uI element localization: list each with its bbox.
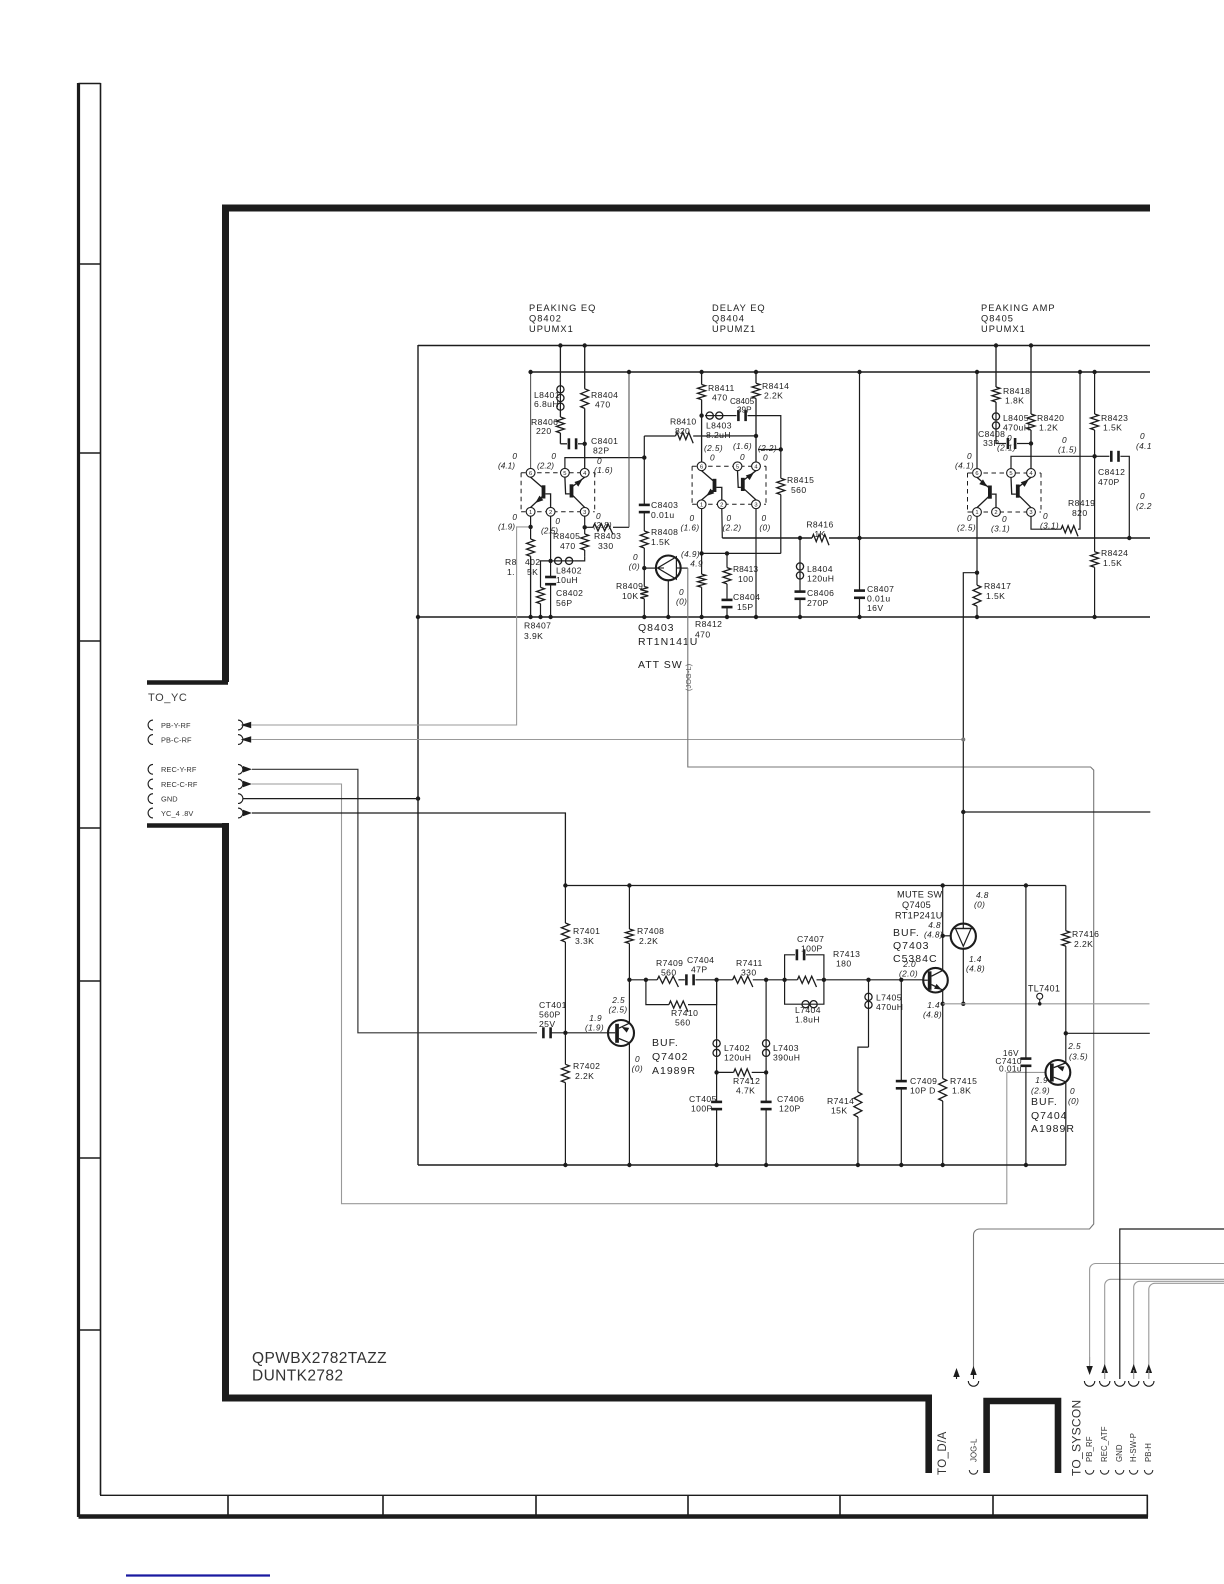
svg-text:820: 820	[1072, 508, 1088, 518]
svg-text:(2.0): (2.0)	[899, 969, 918, 979]
svg-text:(4.8): (4.8)	[924, 929, 943, 939]
svg-text:L8403: L8403	[706, 421, 732, 431]
resistor R7414 15K	[858, 1047, 869, 1092]
resistor R8420 1.2K	[1027, 414, 1035, 430]
svg-text:0.01u: 0.01u	[651, 510, 675, 520]
inductor L8404 120uH column	[798, 536, 802, 540]
wire pin3 node	[584, 516, 586, 527]
svg-text:Q7403: Q7403	[893, 940, 930, 952]
svg-text:0: 0	[1140, 491, 1145, 501]
capacitor C8403 0.01u	[639, 504, 650, 507]
inductor L7403 390uH	[765, 980, 767, 1039]
svg-text:(JOG-L): (JOG-L)	[684, 664, 693, 691]
svg-text:0: 0	[710, 453, 715, 463]
svg-text:(2.1): (2.1)	[997, 443, 1016, 453]
svg-text:R8420: R8420	[1037, 413, 1064, 423]
svg-text:330: 330	[598, 541, 614, 551]
svg-text:560P: 560P	[539, 1010, 561, 1020]
pin 5 (Q8404)	[733, 462, 742, 471]
svg-text:2.2K: 2.2K	[639, 936, 658, 946]
svg-text:100: 100	[738, 574, 754, 584]
resistor R8409 10K	[643, 568, 645, 587]
pin REC_ATF (TO_SYSCON)	[1101, 1364, 1108, 1373]
resistor R8410 820	[644, 435, 675, 437]
wire PB-C-RF net	[251, 739, 963, 741]
pin PB_RF (TO_SYSCON)	[1086, 1366, 1093, 1375]
wire pin1 column down	[530, 516, 532, 539]
inductor L7404 1.8uH (bottom branch)	[785, 980, 802, 1004]
svg-text:R7414: R7414	[827, 1096, 854, 1106]
svg-text:560: 560	[661, 968, 677, 978]
svg-text:A1989R: A1989R	[1031, 1123, 1075, 1135]
svg-text:(3.1): (3.1)	[991, 524, 1010, 534]
svg-text:560: 560	[675, 1018, 691, 1028]
inductor L8401 6.8uH	[559, 385, 561, 411]
svg-text:(0): (0)	[632, 1064, 643, 1074]
svg-text:C8402: C8402	[556, 588, 583, 598]
wire TL7401 net (gray)	[943, 1003, 1150, 1005]
svg-text:R8424: R8424	[1101, 548, 1128, 558]
svg-text:15P: 15P	[737, 602, 754, 612]
svg-text:0: 0	[635, 1054, 640, 1064]
svg-text:0: 0	[967, 451, 972, 461]
svg-text:R7402: R7402	[573, 1061, 600, 1071]
capacitor C8407 0.01u 16V column	[857, 536, 861, 540]
svg-text:(3.5): (3.5)	[1069, 1052, 1088, 1062]
svg-text:(0): (0)	[676, 597, 687, 607]
svg-text:120uH: 120uH	[724, 1053, 751, 1063]
svg-text:QPWBX2782TAZZ: QPWBX2782TAZZ	[252, 1350, 387, 1367]
inductor L8402 10uH	[553, 560, 575, 562]
svg-text:(4.8): (4.8)	[923, 1010, 942, 1020]
resistor R7413 180	[797, 976, 816, 987]
svg-text:6: 6	[975, 471, 978, 477]
resistor R8415 560	[780, 450, 782, 479]
svg-text:ATT SW: ATT SW	[638, 659, 683, 671]
svg-text:(0): (0)	[1068, 1096, 1079, 1106]
svg-text:0: 0	[633, 552, 638, 562]
resistor R8411 470	[698, 385, 706, 400]
capacitor C7409 10P D	[869, 979, 902, 981]
svg-text:820: 820	[675, 426, 690, 436]
svg-text:R8412: R8412	[695, 619, 722, 629]
resistor R8403 330	[585, 526, 593, 528]
svg-text:470: 470	[560, 541, 576, 551]
svg-text:GND: GND	[161, 794, 178, 803]
svg-text:(1.9): (1.9)	[498, 522, 515, 532]
svg-text:R7412: R7412	[733, 1076, 760, 1086]
pin PB-Y-RF (TO_YC)	[148, 720, 153, 730]
pin 6 (Q8402)	[526, 468, 535, 477]
wire R8414 column	[755, 372, 757, 383]
wire C8403 column	[643, 458, 645, 505]
resistor R8408 1.5K	[640, 531, 648, 548]
svg-text:1: 1	[975, 510, 978, 516]
wire R8411 column	[701, 372, 703, 385]
capacitor C7407 100P (top branch)	[785, 955, 795, 980]
svg-text:BUF.: BUF.	[652, 1037, 679, 1049]
svg-text:470uH: 470uH	[876, 1002, 903, 1012]
svg-text:(2.2): (2.2)	[537, 461, 554, 471]
svg-text:A1989R: A1989R	[652, 1065, 696, 1077]
svg-text:0: 0	[679, 587, 684, 597]
resistor R7416 2.2K	[1065, 886, 1067, 931]
svg-text:47P: 47P	[691, 965, 708, 975]
wire Q8403 emitter to ground	[667, 580, 669, 617]
wire pin6 column (supply)	[976, 372, 978, 469]
svg-text:PB_RF: PB_RF	[1085, 1436, 1094, 1462]
svg-text:PB-H: PB-H	[1144, 1443, 1153, 1462]
wire REC-C-RF net	[252, 784, 1046, 1204]
svg-text:R8417: R8417	[984, 581, 1011, 591]
svg-text:JOG-L: JOG-L	[969, 1438, 978, 1462]
svg-text:25V: 25V	[539, 1019, 556, 1029]
svg-text:0: 0	[761, 513, 766, 523]
svg-text:5: 5	[1009, 471, 1012, 477]
svg-text:BUF.: BUF.	[893, 927, 920, 939]
resistor R8405 470	[581, 534, 589, 550]
svg-text:(4.1): (4.1)	[498, 461, 515, 471]
svg-text:10K: 10K	[622, 591, 639, 601]
svg-text:H-SW-P: H-SW-P	[1129, 1433, 1138, 1462]
resistor R7411 330	[733, 976, 753, 987]
svg-text:2.5: 2.5	[1067, 1041, 1081, 1051]
svg-text:6: 6	[700, 464, 703, 470]
pin REC-Y-RF (TO_YC)	[148, 764, 153, 774]
svg-text:(1.6): (1.6)	[594, 465, 613, 475]
svg-text:0: 0	[689, 513, 694, 523]
pin 1 (Q8402)	[526, 507, 535, 516]
resistor R8412 470	[698, 574, 706, 587]
pin PB-C-RF (TO_YC)	[148, 735, 153, 745]
svg-text:470: 470	[712, 393, 728, 403]
svg-text:(4.8): (4.8)	[966, 964, 985, 974]
wire pin3 column to ground	[755, 509, 757, 617]
svg-text:R8405: R8405	[553, 531, 580, 541]
wire R8404 column	[584, 345, 586, 389]
resistor R8419 820	[1031, 516, 1061, 529]
svg-text:(1.6): (1.6)	[680, 523, 699, 533]
svg-text:GND: GND	[1115, 1444, 1124, 1462]
pin 3 (Q8404)	[752, 500, 761, 509]
svg-text:0: 0	[1007, 433, 1012, 443]
capacitor C8404 15P	[722, 599, 733, 602]
wire node y=553 to R8415	[702, 552, 781, 554]
wire 4.8V rail y=885	[565, 885, 1065, 887]
transistor Q7405 RT1P241U (MUTE SW)	[943, 935, 951, 937]
wire R8418/L8405 column	[995, 345, 997, 387]
svg-text:CT405: CT405	[689, 1094, 717, 1104]
svg-text:390uH: 390uH	[773, 1053, 800, 1063]
svg-text:0: 0	[726, 513, 731, 523]
svg-text:(2.2: (2.2	[1136, 501, 1152, 511]
resistor R8424 1.5K	[1094, 456, 1096, 551]
svg-text:0: 0	[967, 513, 972, 523]
svg-text:RT1P241U: RT1P241U	[895, 911, 943, 921]
resistor R8404 470	[581, 389, 589, 409]
pin 3 (Q8402)	[580, 507, 589, 516]
svg-text:REC-Y-RF: REC-Y-RF	[161, 765, 197, 774]
svg-text:(0): (0)	[759, 523, 770, 533]
svg-text:(1.5): (1.5)	[1058, 445, 1077, 455]
svg-text:560: 560	[791, 485, 807, 495]
capacitor C7404 47P	[685, 974, 688, 985]
wire inner box left edge (GND net)	[417, 345, 419, 1165]
wire pin1 column / node 4.9	[701, 509, 703, 574]
transistor Q8403 RT1N141U (ATT SW)	[644, 567, 656, 569]
svg-text:C8403: C8403	[651, 500, 678, 510]
pin 1 (Q8404)	[697, 500, 706, 509]
svg-text:C8401: C8401	[591, 436, 618, 446]
resistor R7409 560	[657, 976, 678, 987]
svg-text:0: 0	[1140, 431, 1145, 441]
svg-text:15K: 15K	[831, 1106, 848, 1116]
wire top rail y=345	[418, 345, 1150, 347]
svg-text:Q7402: Q7402	[652, 1051, 689, 1063]
svg-text:C7406: C7406	[777, 1094, 804, 1104]
svg-text:2.2K: 2.2K	[764, 391, 783, 401]
svg-text:2.2K: 2.2K	[1074, 939, 1093, 949]
svg-text:L7402: L7402	[724, 1043, 750, 1053]
svg-text:100P: 100P	[801, 944, 823, 954]
svg-text:TO_D/A: TO_D/A	[937, 1431, 949, 1475]
svg-text:PEAKING EQ: PEAKING EQ	[529, 303, 596, 313]
wire GND net to box edge	[243, 798, 418, 800]
svg-text:R8411: R8411	[708, 383, 735, 393]
svg-text:R8403: R8403	[594, 531, 621, 541]
wire PB_RF net (gray)	[1090, 1264, 1224, 1364]
svg-text:DUNTK2782: DUNTK2782	[252, 1368, 343, 1385]
wire PB-H net (gray)	[1149, 1283, 1224, 1366]
svg-text:82P: 82P	[593, 446, 610, 456]
wire y=1033 line to right	[1066, 1032, 1150, 1034]
wire L8401/R8406 column	[559, 345, 561, 385]
pin 2 (Q8405)	[992, 508, 1001, 517]
svg-text:1.8uH: 1.8uH	[795, 1015, 820, 1025]
wire ground rail y=617 (top circuit)	[418, 616, 1150, 618]
pin GND (TO_YC)	[148, 794, 153, 804]
svg-text:2.0: 2.0	[902, 959, 916, 969]
svg-text:R7415: R7415	[950, 1076, 977, 1086]
svg-text:Q7404: Q7404	[1031, 1110, 1068, 1122]
wire Q7402 collector column	[628, 980, 630, 1023]
svg-text:2: 2	[994, 510, 997, 516]
pin JOG-L (TO_D/A)	[973, 1235, 975, 1368]
pin YC_4 .8V (TO_YC)	[148, 808, 153, 818]
svg-text:5: 5	[563, 471, 566, 477]
pin 4 (Q8404)	[752, 462, 761, 471]
wire pin2 column to signal line	[721, 509, 724, 538]
svg-text:R8413: R8413	[733, 564, 758, 574]
svg-text:C8412: C8412	[1098, 467, 1125, 477]
svg-text:YC_4 .8V: YC_4 .8V	[161, 809, 193, 818]
wire lower box bottom rail y=1165	[418, 1164, 1066, 1166]
svg-text:R8409: R8409	[616, 581, 643, 591]
svg-text:3: 3	[754, 502, 757, 508]
capacitor C8408 33P	[996, 443, 1006, 445]
svg-text:Q8405: Q8405	[981, 314, 1014, 324]
svg-text:UPUMX1: UPUMX1	[981, 324, 1026, 334]
svg-text:1.: 1.	[507, 567, 515, 577]
svg-text:5K: 5K	[527, 567, 538, 577]
svg-text:R7408: R7408	[637, 926, 664, 936]
svg-text:PB-Y-RF: PB-Y-RF	[161, 721, 191, 730]
svg-text:0: 0	[1043, 511, 1048, 521]
svg-text:Q8402: Q8402	[529, 314, 562, 324]
svg-text:(4.1): (4.1)	[955, 461, 974, 471]
svg-text:2.5: 2.5	[611, 995, 625, 1005]
wire Q7405 collector to TL7401 line	[962, 949, 964, 1004]
wire Q7403 emitter node	[942, 990, 944, 1004]
svg-text:1.4: 1.4	[927, 1000, 940, 1010]
svg-text:1.8K: 1.8K	[1005, 396, 1024, 406]
wire GND net to TO_SYSCON	[1120, 1229, 1224, 1379]
blue reference line	[126, 1574, 270, 1576]
resistor R8413 100	[726, 553, 728, 567]
svg-text:120P: 120P	[779, 1104, 801, 1114]
svg-text:(4.9): (4.9)	[681, 549, 700, 559]
svg-text:0: 0	[512, 512, 517, 522]
svg-text:L7403: L7403	[773, 1043, 799, 1053]
svg-text:1.5K: 1.5K	[651, 537, 670, 547]
svg-text:RT1N141U: RT1N141U	[638, 636, 698, 648]
resistor R7402 2.2K	[561, 1064, 569, 1082]
resistor R7401 3.3K	[564, 886, 566, 924]
svg-text:2: 2	[549, 510, 552, 516]
pin 2 (Q8404)	[717, 500, 726, 509]
svg-text:16V: 16V	[867, 603, 884, 613]
svg-text:REC_ATF: REC_ATF	[1100, 1426, 1109, 1462]
svg-text:180: 180	[836, 959, 852, 969]
svg-text:470uH: 470uH	[1003, 423, 1030, 433]
svg-text:2: 2	[720, 502, 723, 508]
transistor Q7403 C5384C (BUF)	[923, 968, 948, 993]
svg-text:(1.6): (1.6)	[733, 441, 752, 451]
svg-text:C7404: C7404	[687, 955, 714, 965]
pin 6 (Q8405)	[973, 469, 982, 478]
capacitor C8402 56P	[545, 576, 556, 579]
capacitor C8405 39P	[737, 410, 740, 421]
capacitor C8412 470P	[1110, 451, 1113, 462]
pin PB-H (TO_SYSCON)	[1146, 1364, 1153, 1373]
pin 4 (Q8405)	[1027, 469, 1036, 478]
svg-text:C8407: C8407	[867, 584, 894, 594]
svg-text:0: 0	[551, 451, 556, 461]
svg-text:R8415: R8415	[787, 475, 814, 485]
svg-text:R7413: R7413	[833, 949, 860, 959]
wire pin2 column down	[550, 516, 552, 577]
resistor R8414 2.2K	[752, 383, 760, 398]
wire output branch down to mute switch	[963, 573, 977, 924]
wire pin1 column / output node	[976, 516, 978, 585]
svg-text:R7401: R7401	[573, 926, 600, 936]
resistor R8423 1.5K	[1091, 414, 1099, 430]
svg-text:R8404: R8404	[591, 390, 618, 400]
svg-text:BUF.: BUF.	[1031, 1096, 1058, 1108]
pin H-SW-P (TO_SYSCON)	[1130, 1364, 1137, 1373]
wire H-SW-P net (gray)	[1134, 1281, 1224, 1366]
svg-text:R8418: R8418	[1003, 386, 1030, 396]
capacitor C7406 120P	[765, 1072, 767, 1101]
resistor R8416 1K (inline y=538)	[812, 534, 829, 545]
wire pin4 branch to R8415 node	[758, 449, 781, 451]
connector TO_D/A box	[987, 1401, 1058, 1473]
svg-text:L7405: L7405	[876, 993, 902, 1003]
svg-text:402: 402	[525, 557, 541, 567]
transistor pair Q8404	[692, 465, 766, 467]
resistor R8417 1.5K	[973, 585, 981, 606]
svg-text:DELAY EQ: DELAY EQ	[712, 303, 766, 313]
inductor L7405 470uH	[866, 978, 870, 982]
capacitor C8406 270P	[795, 590, 806, 593]
svg-text:5: 5	[736, 464, 739, 470]
svg-text:1.5K: 1.5K	[986, 591, 1005, 601]
svg-text:0: 0	[763, 453, 768, 463]
wire Q7404 collector/emitter column	[1065, 1060, 1067, 1062]
svg-text:(2.9): (2.9)	[1031, 1086, 1050, 1096]
capacitor CT405 100P	[716, 1072, 718, 1101]
svg-text:470P: 470P	[1098, 477, 1120, 487]
svg-text:0: 0	[1002, 514, 1007, 524]
svg-text:4.8: 4.8	[976, 890, 989, 900]
svg-text:Q8403: Q8403	[638, 622, 675, 634]
svg-text:PB-C-RF: PB-C-RF	[161, 735, 192, 744]
svg-text:2.2K: 2.2K	[575, 1071, 594, 1081]
wire REC-Y-RF net	[252, 769, 537, 1033]
wire supply rail y=372	[531, 371, 1150, 373]
capacitor CT401 560P 25V	[542, 1027, 545, 1038]
svg-text:4.9: 4.9	[690, 559, 703, 569]
pin 3 (Q8405)	[1027, 508, 1036, 517]
svg-text:0: 0	[1062, 435, 1067, 445]
wire Q7403 collector column	[942, 886, 944, 971]
transistor Q7404 A1989R (BUF)	[1046, 1060, 1071, 1085]
pin GND (TO_SYSCON)	[1115, 1381, 1125, 1386]
wire R8420 column	[1030, 345, 1032, 414]
svg-text:120uH: 120uH	[807, 574, 834, 584]
wire pin6 column from supply rail	[530, 372, 532, 468]
svg-text:0.01u: 0.01u	[867, 594, 891, 604]
svg-text:3.9K: 3.9K	[524, 631, 543, 641]
svg-text:R7410: R7410	[671, 1008, 698, 1018]
wire REC_ATF net (gray)	[1105, 1279, 1224, 1366]
svg-text:R8408: R8408	[651, 527, 678, 537]
svg-text:(2.5): (2.5)	[608, 1005, 627, 1015]
pin REC-C-RF (TO_YC)	[148, 779, 153, 789]
svg-text:330: 330	[741, 968, 757, 978]
svg-text:6: 6	[529, 471, 532, 477]
svg-text:L7404: L7404	[795, 1005, 821, 1015]
wire R8403 to supply rail column	[628, 372, 630, 527]
wire YC_4.8V net	[252, 813, 565, 886]
resistor R8418 1.8K	[992, 387, 1000, 402]
svg-text:MUTE SW: MUTE SW	[897, 890, 943, 900]
svg-text:1.9: 1.9	[1035, 1075, 1048, 1085]
inductor L7402 120uH	[716, 980, 718, 1039]
svg-text:R8: R8	[505, 557, 517, 567]
svg-text:1.8K: 1.8K	[952, 1086, 971, 1096]
pin 5 (Q8402)	[561, 468, 570, 477]
pin 4 (Q8402)	[580, 468, 589, 477]
svg-text:TL7401: TL7401	[1028, 984, 1060, 994]
board outline (thick border)	[222, 205, 1150, 212]
svg-text:C8404: C8404	[733, 592, 760, 602]
resistor R8402 1.5K	[527, 539, 535, 556]
pin 6 (Q8404)	[697, 462, 706, 471]
svg-text:56P: 56P	[556, 598, 573, 608]
resistor R8407 3.9K branch	[541, 561, 551, 588]
svg-text:1K: 1K	[814, 529, 825, 539]
